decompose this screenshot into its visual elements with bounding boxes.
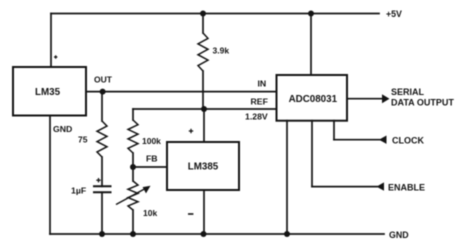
junction dot OUT node	[100, 89, 106, 95]
svg-text:IN: IN	[258, 78, 267, 88]
svg-text:REF: REF	[251, 96, 268, 106]
wire LM35 V+ lead	[50, 14, 52, 68]
LM385 minus sign	[188, 213, 193, 215]
wire serial data output	[347, 98, 383, 100]
svg-text:ENABLE: ENABLE	[388, 182, 425, 192]
LM385 plus sign	[189, 129, 193, 133]
capacitor plus sign	[96, 178, 100, 182]
svg-text:FB: FB	[146, 154, 158, 164]
svg-text:1.28V: 1.28V	[245, 111, 268, 121]
arrow serial data output	[382, 94, 390, 103]
svg-text:1µF: 1µF	[71, 186, 86, 196]
IC U2 LM385 box	[167, 142, 239, 190]
wire FB node to LM385 FB pin	[133, 166, 167, 168]
wire ADC V+ lead	[310, 14, 312, 76]
wire FB node down to pot 10k	[132, 167, 134, 181]
capacitor 1uF	[93, 186, 112, 192]
wire clock horizontal	[334, 139, 380, 141]
junction dot top rail 3.9k	[200, 11, 206, 17]
resistor 3.9k	[198, 33, 208, 71]
wire LM35 GND lead	[49, 116, 51, 235]
svg-text:CLOCK: CLOCK	[392, 135, 424, 145]
svg-text:100k: 100k	[142, 136, 161, 146]
arrow clock	[379, 136, 387, 144]
junction dot GND rail LM385	[201, 231, 207, 237]
wire enable vertical	[311, 121, 313, 187]
wire LM385 plus lead	[203, 109, 205, 142]
svg-text:OUT: OUT	[94, 75, 113, 85]
resistor 100k	[128, 120, 138, 153]
potentiometer 10k zigzag	[128, 181, 138, 210]
svg-text:GND: GND	[53, 124, 72, 134]
wire LM385 minus lead	[203, 190, 205, 234]
potentiometer 10k wiper arrow	[116, 186, 151, 205]
wire 3.9k down to REF line	[202, 71, 204, 109]
wire REF corner down to 100k	[132, 109, 134, 120]
junction dot FB node	[130, 164, 136, 170]
wire R 75 to capacitor	[101, 157, 103, 186]
svg-text:GND: GND	[389, 230, 409, 240]
IC U3 ADC08031 box	[277, 75, 348, 121]
junction dot GND rail pot	[130, 231, 136, 237]
junction dot REF node	[201, 106, 207, 112]
svg-text:DATA OUTPUT: DATA OUTPUT	[391, 98, 454, 108]
wire 100k to FB node	[132, 153, 134, 167]
wire OUT junction down to R 75	[101, 92, 103, 121]
wire LM35 OUT to ADC IN	[86, 91, 277, 93]
svg-text:ADC08031: ADC08031	[289, 94, 338, 105]
svg-text:SERIAL: SERIAL	[391, 87, 425, 97]
svg-text:75: 75	[78, 135, 88, 145]
LM35 plus sign	[54, 55, 57, 58]
svg-text:LM385: LM385	[188, 161, 219, 172]
junction dot GND rail ADC	[284, 231, 290, 237]
junction dot top rail ADC V+	[308, 11, 314, 17]
wire clock vertical	[333, 121, 335, 140]
svg-text:3.9k: 3.9k	[213, 46, 230, 56]
svg-text:10k: 10k	[143, 208, 157, 218]
wire ADC GND lead	[286, 121, 288, 234]
svg-text:LM35: LM35	[35, 87, 61, 98]
wire capacitor to GND rail	[101, 192, 103, 234]
svg-text:+5V: +5V	[386, 9, 402, 19]
arrow enable	[377, 182, 385, 190]
resistor 75	[97, 121, 107, 157]
junction dot GND rail cap	[99, 231, 105, 237]
wire GND bottom rail	[50, 233, 384, 235]
wire enable horizontal	[312, 186, 377, 188]
wire +5V rail down to 3.9k	[202, 14, 204, 34]
wire +5V top rail	[51, 13, 379, 15]
wire REF line to ADC REF	[133, 108, 277, 110]
IC U1 LM35 box	[13, 67, 86, 116]
wire pot 10k to GND rail	[132, 210, 134, 234]
